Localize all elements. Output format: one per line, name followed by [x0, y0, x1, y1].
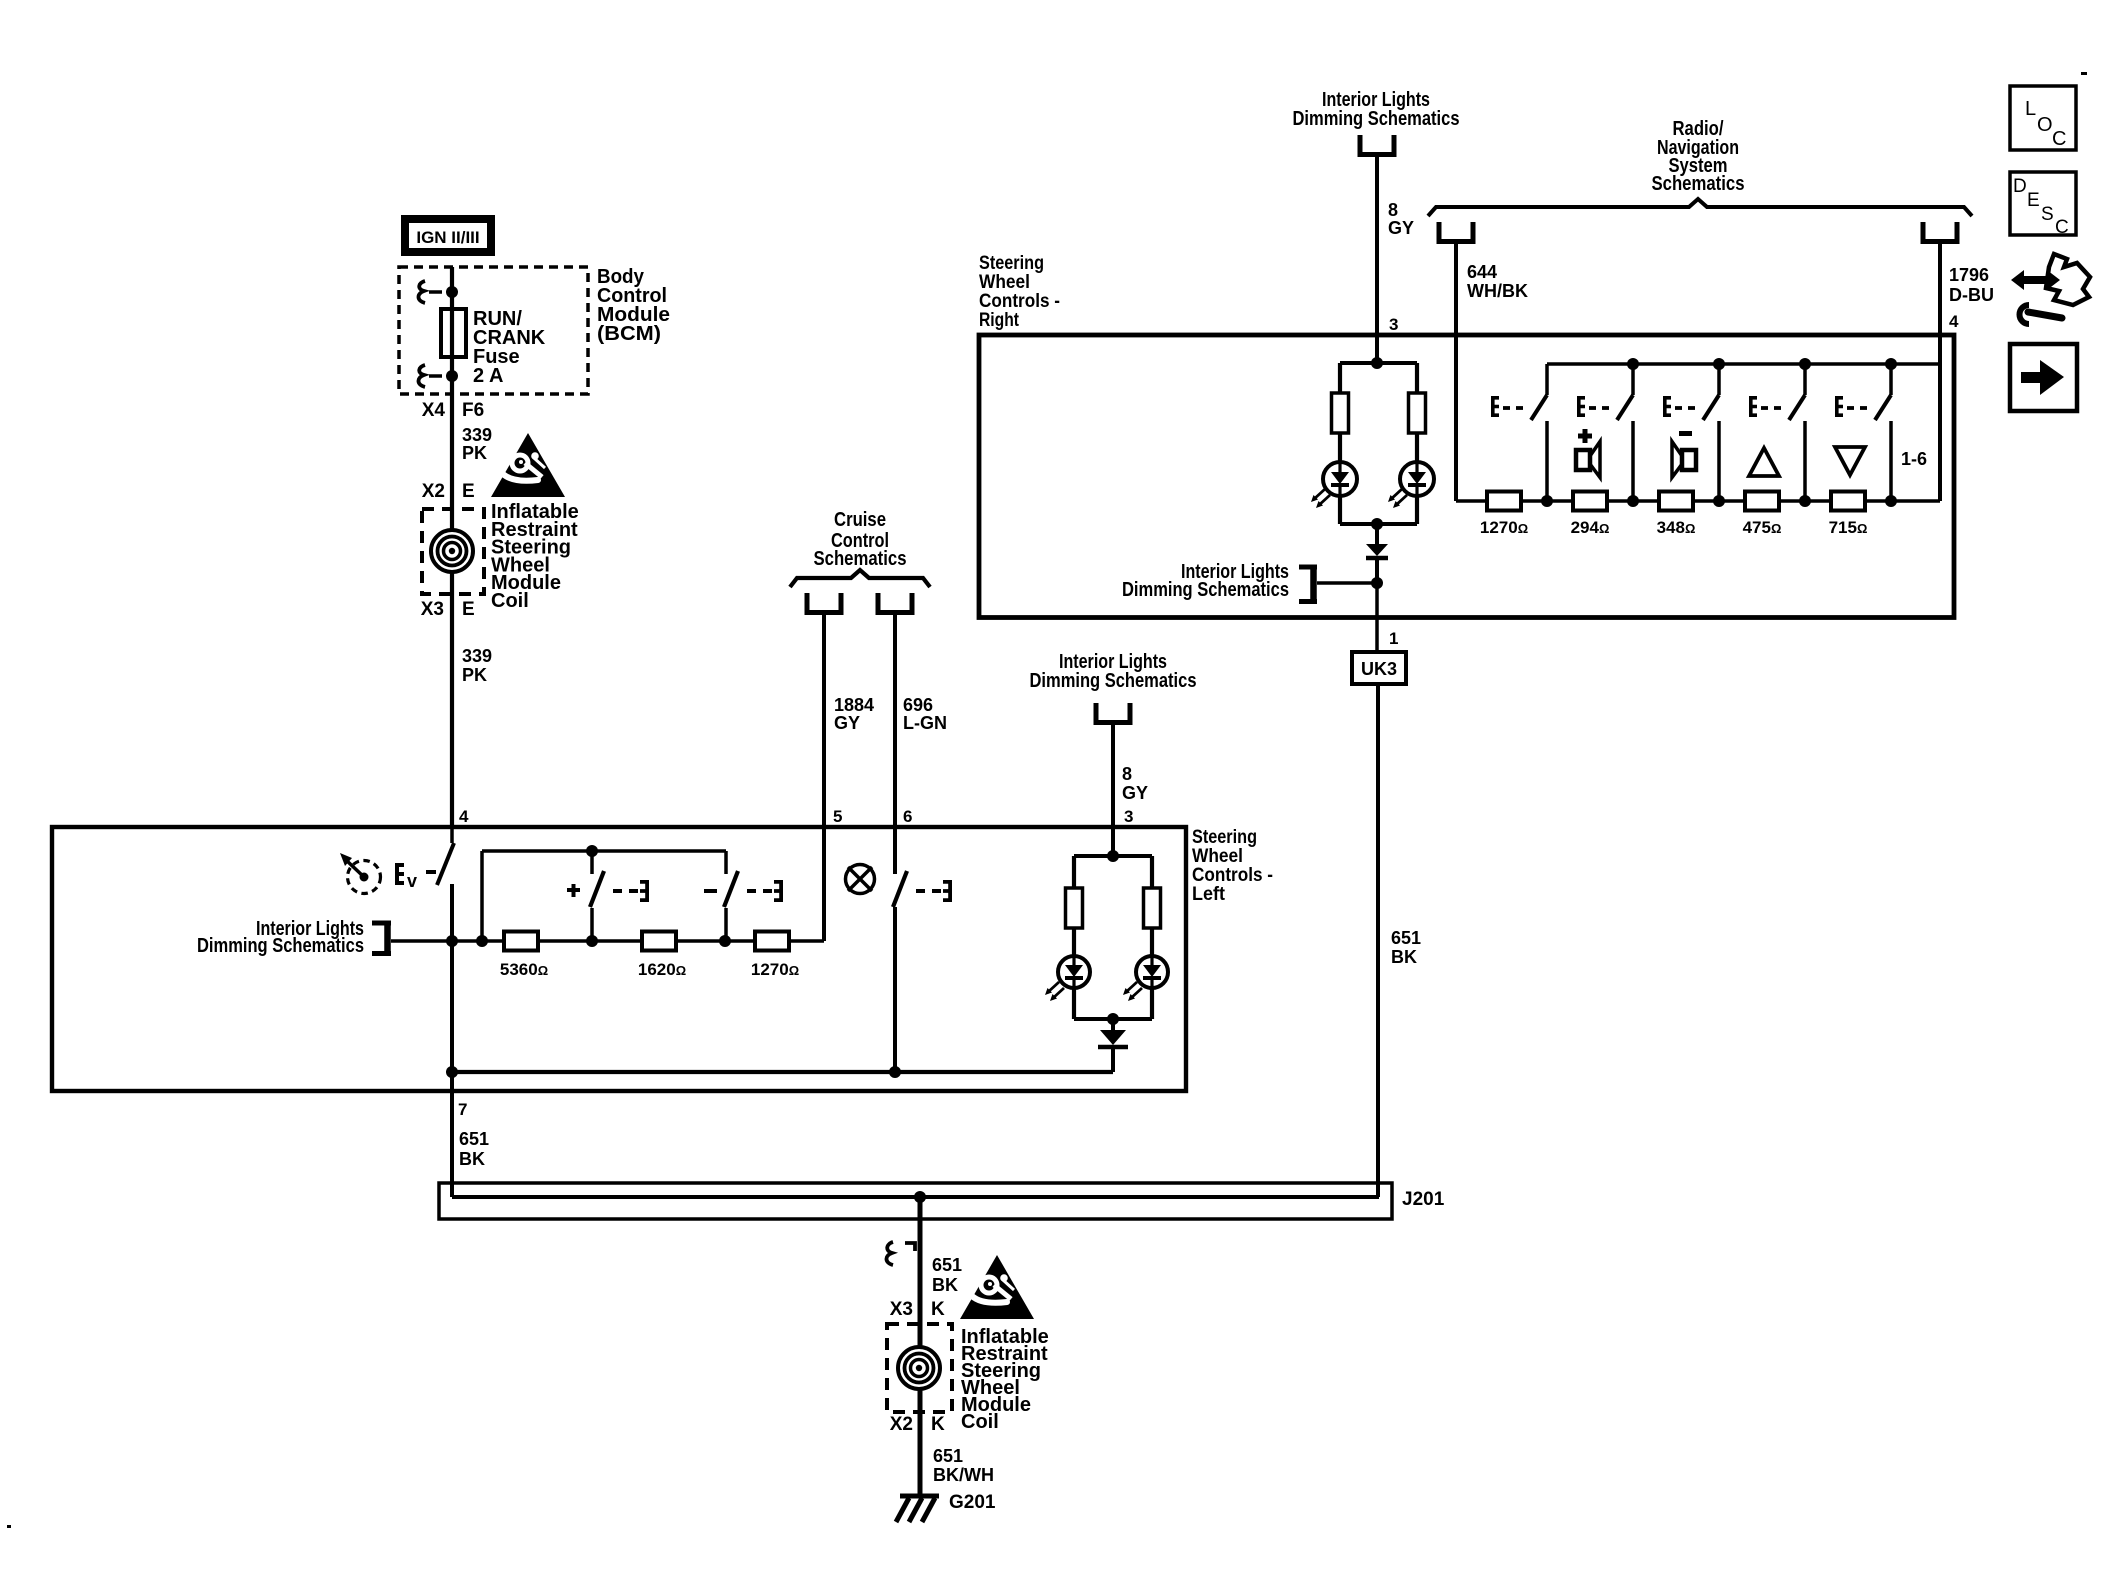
svg-text:Right: Right	[979, 309, 1019, 331]
svg-text:Schematics: Schematics	[814, 547, 907, 570]
svg-text:K: K	[931, 1299, 945, 1320]
svg-text:C: C	[2052, 128, 2066, 150]
svg-text:E: E	[2027, 190, 2040, 211]
svg-text:X3: X3	[890, 1299, 913, 1320]
svg-text:D: D	[2013, 176, 2027, 197]
svg-text:651: 651	[932, 1255, 962, 1275]
svg-text:GY: GY	[834, 713, 860, 733]
svg-text:Dimming Schematics: Dimming Schematics	[1293, 107, 1460, 130]
svg-text:GY: GY	[1388, 218, 1414, 238]
svg-text:1270Ω: 1270Ω	[1480, 518, 1528, 537]
svg-text:BK/WH: BK/WH	[933, 1465, 994, 1485]
svg-text:Coil: Coil	[491, 590, 529, 612]
svg-text:(BCM): (BCM)	[597, 323, 661, 345]
svg-text:4: 4	[459, 807, 469, 826]
svg-text:1-6: 1-6	[1901, 449, 1927, 469]
svg-text:6: 6	[903, 807, 912, 826]
svg-text:Left: Left	[1192, 883, 1225, 905]
svg-text:E: E	[462, 599, 475, 620]
svg-text:475Ω: 475Ω	[1743, 518, 1782, 537]
svg-text:5360Ω: 5360Ω	[500, 960, 548, 979]
svg-text:3: 3	[1124, 807, 1133, 826]
svg-text:651: 651	[1391, 928, 1421, 948]
svg-text:L: L	[2025, 98, 2036, 120]
svg-text:5: 5	[833, 807, 842, 826]
svg-text:1: 1	[1389, 629, 1398, 648]
svg-text:715Ω: 715Ω	[1829, 518, 1868, 537]
svg-text:X2: X2	[422, 481, 445, 502]
svg-text:339: 339	[462, 425, 492, 445]
svg-text:UK3: UK3	[1361, 659, 1397, 679]
svg-text:644: 644	[1467, 262, 1497, 282]
svg-text:BK: BK	[459, 1149, 485, 1169]
svg-text:Cruise: Cruise	[834, 508, 886, 531]
svg-text:8: 8	[1388, 200, 1398, 220]
svg-text:651: 651	[933, 1446, 963, 1466]
svg-text:339: 339	[462, 646, 492, 666]
svg-text:G201: G201	[949, 1492, 996, 1513]
svg-text:Dimming Schematics: Dimming Schematics	[1122, 578, 1289, 601]
svg-text:2 A: 2 A	[473, 365, 503, 387]
svg-text:348Ω: 348Ω	[1657, 518, 1696, 537]
svg-text:Coil: Coil	[961, 1411, 999, 1433]
svg-text:C: C	[2055, 217, 2069, 238]
svg-text:Schematics: Schematics	[1652, 172, 1745, 195]
svg-text:651: 651	[459, 1129, 489, 1149]
svg-text:PK: PK	[462, 443, 487, 463]
svg-text:PK: PK	[462, 665, 487, 685]
svg-text:v: v	[407, 871, 417, 891]
svg-text:294Ω: 294Ω	[1571, 518, 1610, 537]
svg-text:K: K	[931, 1414, 945, 1435]
svg-text:O: O	[2037, 114, 2053, 136]
svg-text:IGN II/III: IGN II/III	[416, 228, 479, 247]
svg-text:X4: X4	[422, 400, 446, 421]
svg-text:X3: X3	[421, 599, 444, 620]
svg-text:J201: J201	[1402, 1189, 1445, 1210]
svg-text:1796: 1796	[1949, 265, 1989, 285]
svg-text:7: 7	[458, 1100, 467, 1119]
svg-text:4: 4	[1949, 312, 1959, 331]
svg-text:L-GN: L-GN	[903, 713, 947, 733]
svg-text:WH/BK: WH/BK	[1467, 281, 1528, 301]
svg-text:S: S	[2041, 204, 2054, 225]
svg-text:Dimming Schematics: Dimming Schematics	[197, 934, 364, 957]
svg-text:Dimming Schematics: Dimming Schematics	[1030, 669, 1197, 692]
svg-text:BK: BK	[932, 1275, 958, 1295]
svg-text:X2: X2	[890, 1414, 913, 1435]
svg-text:F6: F6	[462, 400, 484, 421]
svg-text:696: 696	[903, 695, 933, 715]
svg-text:E: E	[462, 481, 475, 502]
svg-text:3: 3	[1389, 315, 1398, 334]
svg-text:GY: GY	[1122, 783, 1148, 803]
svg-text:1620Ω: 1620Ω	[638, 960, 686, 979]
svg-text:BK: BK	[1391, 947, 1417, 967]
svg-text:8: 8	[1122, 764, 1132, 784]
svg-text:1270Ω: 1270Ω	[751, 960, 799, 979]
svg-text:1884: 1884	[834, 695, 874, 715]
svg-text:D-BU: D-BU	[1949, 285, 1994, 305]
